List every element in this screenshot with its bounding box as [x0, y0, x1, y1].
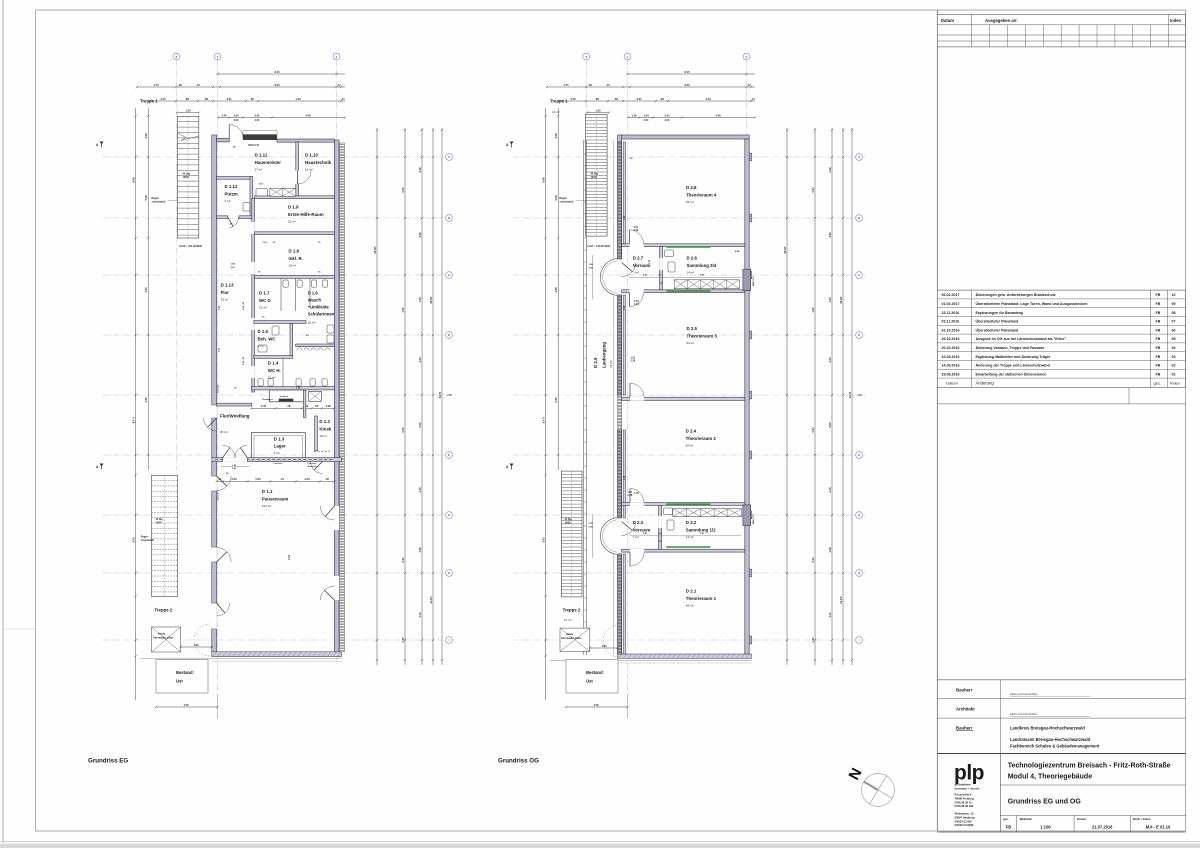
- OG Erker 1 bay window: [600, 259, 617, 296]
- svg-text:2.26: 2.26: [634, 229, 639, 232]
- svg-text:D 1.8: D 1.8: [289, 249, 300, 254]
- OG zone2 walls: [622, 503, 745, 506]
- svg-text:03: 03: [1172, 355, 1176, 359]
- far right vertical dim: [441, 128, 443, 665]
- EG WC D cell partitions: [280, 278, 282, 311]
- svg-text:D 2.9: D 2.9: [593, 357, 598, 368]
- svg-text:1.80: 1.80: [601, 644, 607, 648]
- svg-text:.11: .11: [747, 83, 751, 87]
- OG left wall inner lining: [623, 142, 625, 246]
- svg-text:FB: FB: [1156, 302, 1161, 306]
- svg-text:.88: .88: [185, 97, 189, 101]
- EG double door arcs Windfang: [223, 445, 235, 457]
- svg-text:Fahrradabst.plätze: Fahrradabst.plätze: [561, 637, 582, 640]
- svg-text:2.26: 2.26: [628, 494, 633, 497]
- entry dims: [218, 117, 345, 119]
- svg-text:2.26: 2.26: [828, 167, 832, 173]
- svg-text:Modul 4, Theoriegebäude: Modul 4, Theoriegebäude: [1008, 774, 1093, 781]
- svg-text:.90: .90: [250, 97, 254, 101]
- svg-text:.48: .48: [178, 83, 182, 87]
- svg-text:Pausenraum: Pausenraum: [262, 496, 288, 501]
- OG building exterior walls: [622, 135, 750, 139]
- svg-text:FB: FB: [1156, 293, 1161, 297]
- svg-text:0761/38 38 10: 0761/38 38 10: [955, 800, 973, 804]
- left vertical dimension chains: [545, 108, 547, 700]
- svg-text:7 m²: 7 m²: [633, 270, 639, 274]
- OG stair Treppe 2: [561, 471, 582, 597]
- svg-text:3.45: 3.45: [418, 357, 422, 363]
- svg-text:Überarbeiteter Planstand: Überarbeiteter Planstand: [976, 319, 1019, 324]
- svg-text:7 m²: 7 m²: [633, 535, 639, 539]
- svg-text:Änderung Vordach, Treppe und F: Änderung Vordach, Treppe und Fassade: [976, 346, 1045, 350]
- svg-text:.15: .15: [606, 83, 610, 87]
- svg-text:Beh. WC: Beh. WC: [258, 336, 277, 341]
- svg-text:Maßstab:: Maßstab:: [1020, 817, 1033, 821]
- svg-text:±0.00 = 191,48 NHN: ±0.00 = 191,48 NHN: [179, 245, 202, 248]
- EG right facade cladding hatch: [340, 143, 345, 652]
- EG WC H toilets: [258, 379, 263, 386]
- svg-text:07: 07: [1172, 320, 1176, 324]
- EG building exterior walls: [212, 135, 217, 657]
- svg-text:Treppe 1: Treppe 1: [140, 99, 158, 104]
- svg-text:D 1.4: D 1.4: [268, 361, 279, 366]
- svg-text:1.20: 1.20: [185, 108, 191, 112]
- svg-text:D 2.5: D 2.5: [687, 326, 698, 331]
- EG stair Treppe 2: [152, 475, 178, 596]
- svg-text:Laubengang: Laubengang: [602, 342, 607, 368]
- svg-text:FB: FB: [1006, 824, 1012, 829]
- svg-text:6.10: 6.10: [401, 557, 405, 563]
- svg-text:FB: FB: [1156, 320, 1161, 324]
- EG WC H walls: [251, 387, 334, 390]
- svg-text:Schiebe: Schiebe: [218, 384, 220, 393]
- svg-text:1.90: 1.90: [193, 643, 199, 647]
- svg-text:Landratsamt Breisgau-Hochschwa: Landratsamt Breisgau-Hochschwarzwald: [1010, 737, 1091, 742]
- svg-text:.58: .58: [614, 97, 618, 101]
- svg-text:26.10.2016: 26.10.2016: [942, 337, 960, 341]
- svg-text:FB: FB: [1156, 311, 1161, 315]
- svg-text:FB: FB: [1156, 346, 1161, 350]
- svg-text:Ausguck im OG aus der Lärmschu: Ausguck im OG aus der Lärmschutzwand als…: [976, 337, 1067, 341]
- svg-text:4 m²: 4 m²: [225, 199, 231, 203]
- svg-text:34.74: 34.74: [438, 391, 442, 398]
- svg-text:4.75: 4.75: [563, 83, 569, 87]
- north arrow: [862, 774, 895, 807]
- svg-text:4.43: 4.43: [705, 97, 711, 101]
- svg-text:+3,47 = 194,95 NHN: +3,47 = 194,95 NHN: [587, 245, 610, 248]
- issue table (Ausgegeben an): [937, 15, 1185, 47]
- stair width dim: [587, 112, 609, 114]
- EG entry door top: [229, 125, 243, 139]
- EG bike shelter xbox: [152, 627, 181, 652]
- EG room D1.12 walls: [250, 177, 253, 219]
- EG Kiosk walls: [303, 390, 306, 417]
- svg-text:124 m²: 124 m²: [262, 504, 271, 508]
- svg-text:3.41: 3.41: [664, 113, 670, 117]
- svg-text:03.11.2016: 03.11.2016: [942, 320, 960, 324]
- svg-text:Vordaches: Vordaches: [262, 399, 274, 401]
- svg-text:schutzwand: schutzwand: [560, 200, 574, 203]
- svg-text:Woltmanstr. 12: Woltmanstr. 12: [955, 812, 975, 816]
- svg-text:D 2.3: D 2.3: [633, 520, 644, 525]
- horizontal grid lines: [513, 156, 865, 158]
- EG stair Treppe 1: [177, 116, 199, 238]
- svg-text:Treppe 2: Treppe 2: [155, 608, 173, 613]
- svg-text:8.46: 8.46: [132, 177, 136, 183]
- svg-text:Technologiezentrum Breisach -: Technologiezentrum Breisach - Fritz-Roth…: [1008, 763, 1171, 770]
- title area: [937, 753, 1185, 755]
- EG D1.12 door: [230, 217, 239, 228]
- svg-text:4.75: 4.75: [153, 83, 159, 87]
- svg-text:Regen-: Regen-: [141, 537, 149, 539]
- OG right facade pilasters: [749, 153, 752, 161]
- EG Beh WC fixtures: [272, 326, 279, 335]
- OG left wall segments: [618, 142, 622, 259]
- OG right pilaster lower: [743, 505, 751, 526]
- horizontal grid lines: [103, 156, 455, 158]
- svg-text:.11: .11: [751, 97, 755, 101]
- OG Erker2 door arc: [622, 522, 636, 536]
- svg-text:Datum: Datum: [946, 380, 958, 385]
- svg-text:1.45: 1.45: [221, 113, 227, 117]
- svg-text:2.00: 2.00: [665, 119, 670, 122]
- OG ground line below: [550, 659, 752, 661]
- svg-text:4 m²: 4 m²: [274, 451, 280, 455]
- EG left wall door arcs Pausenraum: [204, 418, 217, 431]
- svg-text:1.45: 1.45: [418, 297, 422, 303]
- grid letter circles right: [856, 154, 863, 161]
- svg-text:Index: Index: [1170, 380, 1180, 385]
- svg-text:Datum und Unterschriften: Datum und Unterschriften: [1010, 693, 1038, 696]
- svg-text:Datum: Datum: [941, 18, 954, 23]
- svg-text:Füllstein: Füllstein: [274, 462, 284, 465]
- svg-text:FB: FB: [1156, 355, 1161, 359]
- svg-text:D 1.10: D 1.10: [305, 153, 318, 158]
- svg-text:Erste-Hilfe-Raum: Erste-Hilfe-Raum: [288, 212, 324, 217]
- bottom paper strip: [0, 844, 1200, 849]
- svg-text:+ F6: + F6: [446, 393, 452, 397]
- svg-text:4.10: 4.10: [401, 637, 405, 643]
- EG wall top of Pausenraum: [212, 458, 342, 462]
- title block bottom row: [1016, 815, 1018, 832]
- svg-text:2.45: 2.45: [418, 487, 422, 493]
- svg-text:D 1.3: D 1.3: [274, 436, 285, 441]
- right vertical dimension chains: [376, 128, 378, 665]
- svg-text:D 1.1: D 1.1: [262, 489, 273, 494]
- svg-text:16/30: 16/30: [183, 176, 190, 179]
- svg-text:14.43²: 14.43²: [839, 596, 843, 603]
- EG windfang dim chain: [251, 407, 334, 409]
- svg-text:23 m²: 23 m²: [259, 305, 267, 309]
- Bestand existing building box: [156, 660, 208, 694]
- EG sink fixture top: [256, 189, 268, 196]
- svg-text:Hausmeister: Hausmeister: [255, 160, 282, 165]
- EG top wall: [217, 138, 230, 142]
- svg-text:Haustechnik: Haustechnik: [305, 160, 332, 165]
- svg-text:64 m²: 64 m²: [687, 341, 695, 345]
- svg-text:Grundriss EG und OG: Grundriss EG und OG: [1008, 799, 1082, 806]
- svg-text:01: 01: [1172, 372, 1176, 376]
- svg-text:Putzm.: Putzm.: [225, 191, 239, 196]
- svg-text:3.40: 3.40: [261, 404, 267, 408]
- svg-text:1.45: 1.45: [828, 297, 832, 303]
- svg-text:64 m²: 64 m²: [686, 200, 694, 204]
- svg-text:14.09.2016: 14.09.2016: [942, 364, 960, 368]
- svg-text:D 2.8: D 2.8: [686, 185, 697, 190]
- svg-text:0761/38 38 198: 0761/38 38 198: [955, 804, 974, 808]
- svg-text:BRH 0.70: BRH 0.70: [249, 144, 260, 147]
- title block panel left edge: [936, 10, 938, 831]
- svg-text:3.43: 3.43: [231, 477, 237, 481]
- EG ground line below: [140, 658, 342, 660]
- svg-text:Treppe 1: Treppe 1: [550, 99, 568, 104]
- EG ausguss box: [309, 391, 322, 401]
- EG duct xbox: [270, 188, 296, 196]
- svg-text:schutzwand: schutzwand: [141, 539, 155, 542]
- OG green bars lower zone: [666, 503, 710, 505]
- svg-text:D 1.6: D 1.6: [308, 291, 319, 296]
- svg-text:64 m²: 64 m²: [686, 443, 694, 447]
- svg-text:WC H.: WC H.: [268, 368, 281, 373]
- svg-text:Landkreis Breisgau-Hochschwarz: Landkreis Breisgau-Hochschwarzwald: [1010, 726, 1085, 731]
- svg-text:06: 06: [1172, 328, 1176, 332]
- svg-text:05: 05: [1172, 337, 1176, 341]
- svg-text:3.45: 3.45: [828, 357, 832, 363]
- svg-text:3.15: 3.15: [570, 97, 576, 101]
- EG Lager box: [251, 433, 305, 462]
- svg-text:1.20: 1.20: [595, 108, 601, 112]
- svg-text:1.98: 1.98: [325, 404, 331, 408]
- svg-text:4.46: 4.46: [305, 113, 311, 117]
- svg-text:14 m²: 14 m²: [686, 535, 694, 539]
- svg-text:gez.: gez.: [1154, 380, 1162, 385]
- bestand dim 4.56: [156, 706, 218, 708]
- svg-text:Anbau: Anbau: [158, 633, 166, 636]
- OG small fixtures vorraum upper: [665, 250, 674, 257]
- svg-text:Schülerinnen: Schülerinnen: [308, 312, 335, 317]
- svg-text:04: 04: [1172, 346, 1176, 350]
- svg-text:3.31: 3.31: [226, 97, 232, 101]
- svg-text:Ausgüsse: Ausgüsse: [308, 465, 319, 468]
- svg-text:33.48¹: 33.48¹: [429, 296, 433, 303]
- svg-text:+ F6: + F6: [856, 393, 862, 397]
- svg-text:Index: Index: [1170, 18, 1182, 23]
- svg-text:6.10: 6.10: [811, 557, 815, 563]
- svg-text:D 1.12: D 1.12: [225, 184, 238, 189]
- svg-text:Schiebe: Schiebe: [218, 491, 220, 500]
- svg-text:11 m²: 11 m²: [552, 110, 559, 114]
- EG wall bottom of D1.9: [255, 232, 335, 235]
- entry dims: [628, 117, 755, 119]
- svg-text:02: 02: [1172, 364, 1176, 368]
- svg-text:3.55: 3.55: [144, 287, 148, 293]
- svg-text:Theorieraum 4: Theorieraum 4: [686, 192, 717, 197]
- svg-text:.58: .58: [204, 97, 208, 101]
- left vertical dimension chains: [135, 108, 137, 700]
- svg-text:16.09.2016: 16.09.2016: [942, 355, 960, 359]
- svg-text:Ust: Ust: [586, 679, 593, 684]
- svg-text:Bl.Nr. / Index:: Bl.Nr. / Index:: [1133, 817, 1152, 821]
- OG door Vorraum to T3: [630, 289, 644, 293]
- EG vestibule box: [269, 390, 304, 402]
- svg-text:10 m²: 10 m²: [319, 434, 327, 438]
- svg-text:8.15: 8.15: [684, 70, 690, 74]
- svg-text:11 m²: 11 m²: [564, 618, 571, 622]
- OG small fixtures vorraum lower: [664, 508, 673, 515]
- svg-text:040/23 53 8298: 040/23 53 8298: [955, 823, 974, 827]
- OG doors lower zone: [630, 489, 644, 503]
- stair width dim: [177, 112, 199, 114]
- svg-text:FB: FB: [1156, 328, 1161, 332]
- svg-text:E: E: [448, 453, 450, 457]
- OG right pilaster upper: [743, 269, 751, 290]
- OG stair Treppe 1: [585, 114, 607, 236]
- svg-text:3.08: 3.08: [554, 133, 558, 139]
- svg-text:3.41: 3.41: [254, 113, 260, 117]
- svg-text:4.10: 4.10: [811, 637, 815, 643]
- EG wall above D1.9: [255, 196, 335, 199]
- svg-text:plp: plp: [954, 762, 984, 785]
- top dimension chains: [628, 73, 756, 75]
- svg-text:11 m²: 11 m²: [268, 375, 275, 379]
- top dimension chains: [218, 73, 346, 75]
- OG laubengang inner edge line: [613, 140, 615, 259]
- svg-text:29.08.2016: 29.08.2016: [942, 372, 960, 376]
- svg-text:D 1.5: D 1.5: [258, 329, 269, 334]
- svg-text:4.50: 4.50: [811, 307, 815, 313]
- svg-text:D 1.9: D 1.9: [288, 205, 299, 210]
- EG entry canopy outline: [243, 131, 277, 135]
- svg-text:1.45: 1.45: [634, 492, 639, 495]
- svg-text:5.08: 5.08: [144, 195, 148, 201]
- svg-text:Lager: Lager: [274, 444, 286, 449]
- svg-text:4.56: 4.56: [593, 703, 599, 707]
- svg-text:3.08: 3.08: [144, 133, 148, 139]
- svg-text:10 m²: 10 m²: [289, 263, 297, 267]
- OG door T4: [630, 230, 644, 244]
- svg-text:Inkl. R.: Inkl. R.: [289, 256, 303, 261]
- svg-text:Kiosk: Kiosk: [319, 426, 332, 431]
- svg-text:Einarbeitung der statischen Di: Einarbeitung der statischen Dimensionen: [976, 372, 1047, 376]
- svg-text:5.05: 5.05: [828, 422, 832, 428]
- svg-text:33 m²: 33 m²: [221, 297, 229, 301]
- svg-text:31.10.2016: 31.10.2016: [942, 328, 960, 332]
- svg-text:M.4 - E 01.10: M.4 - E 01.10: [1146, 824, 1171, 829]
- EG serving counter: [314, 450, 330, 452]
- svg-text:1.04: 1.04: [233, 113, 239, 117]
- svg-text:3.31: 3.31: [636, 97, 642, 101]
- svg-text:H: H: [448, 571, 450, 575]
- EG kiosk door arc: [311, 462, 323, 474]
- svg-text:10 m²: 10 m²: [305, 167, 313, 171]
- svg-text:Fachbereich Schulen & Gebäudem: Fachbereich Schulen & Gebäudemanagement: [1010, 744, 1100, 749]
- svg-text:D 2.2: D 2.2: [686, 520, 697, 525]
- svg-text:3.43: 3.43: [304, 477, 310, 481]
- svg-text:1.43: 1.43: [418, 612, 422, 618]
- svg-text:3.15: 3.15: [160, 97, 166, 101]
- svg-text:FB: FB: [1156, 337, 1161, 341]
- svg-text:4.04¹: 4.04¹: [634, 302, 640, 306]
- svg-text:Vorraum: Vorraum: [633, 527, 651, 532]
- bestand dim 4.56: [566, 706, 628, 708]
- svg-text:10 m²: 10 m²: [308, 321, 316, 325]
- svg-text:FB: FB: [1156, 372, 1161, 376]
- svg-text:5.08: 5.08: [554, 195, 558, 201]
- OG shelter xbox: [560, 628, 590, 651]
- svg-text:4.46: 4.46: [715, 113, 721, 117]
- svg-text:35 m²: 35 m²: [220, 430, 228, 434]
- svg-text:3.34¹: 3.34¹: [287, 554, 291, 560]
- svg-text:8.4 ½: 8.4 ½: [542, 416, 546, 423]
- svg-text:35.48¹: 35.48¹: [783, 246, 787, 253]
- svg-text:5.43: 5.43: [542, 537, 546, 543]
- svg-text:D 1.11: D 1.11: [255, 153, 268, 158]
- svg-text:6.30: 6.30: [401, 187, 405, 193]
- svg-text:16/30: 16/30: [591, 176, 598, 179]
- Bestand existing building box: [566, 660, 618, 694]
- svg-text:2.55: 2.55: [554, 397, 558, 403]
- svg-text:21.07.2016: 21.07.2016: [1092, 824, 1113, 829]
- svg-text:23.11.2016: 23.11.2016: [942, 311, 960, 315]
- svg-text:Architekt: Architekt: [956, 707, 975, 712]
- svg-text:D 2.7: D 2.7: [633, 256, 644, 261]
- OG cabinet xband lower: [673, 509, 742, 517]
- svg-text:D 1.2: D 1.2: [319, 419, 330, 424]
- svg-text:8.33: 8.33: [684, 83, 690, 87]
- svg-text:.11: .11: [341, 97, 345, 101]
- svg-text:6.30: 6.30: [811, 187, 815, 193]
- EG WC toilets row: [283, 280, 288, 287]
- signature block: [937, 679, 1185, 681]
- svg-text:14.43²: 14.43²: [429, 596, 433, 603]
- svg-text:Ausgegeben an:: Ausgegeben an:: [985, 18, 1018, 23]
- fold mark left: [3, 628, 36, 630]
- svg-text:Flur/Windfang: Flur/Windfang: [220, 414, 250, 419]
- grid axis vertical lines: [585, 60, 587, 470]
- svg-text:Theorieraum 3: Theorieraum 3: [687, 333, 718, 338]
- OG doors upper zone2: [630, 383, 644, 397]
- svg-text:06.02.2017: 06.02.2017: [942, 293, 960, 297]
- svg-text:Bestand:: Bestand:: [586, 670, 604, 675]
- svg-text:17 m²: 17 m²: [255, 167, 263, 171]
- svg-text:Änderungen gem. Anforderungen: Änderungen gem. Anforderungen Brandschut…: [976, 293, 1056, 297]
- svg-text:2.00: 2.00: [234, 119, 239, 122]
- svg-text:10: 10: [1172, 293, 1176, 297]
- OG bottom wall hatched: [618, 654, 752, 658]
- EG bottom wall hatched: [212, 652, 342, 657]
- svg-text:BRH 0.70: BRH 0.70: [753, 514, 755, 524]
- OG dashed door arc at shelter: [603, 625, 619, 657]
- svg-text:1.04: 1.04: [643, 113, 649, 117]
- EG Windfang walls: [217, 403, 252, 406]
- OG Erker1 door arc: [622, 263, 636, 277]
- svg-text:E: E: [858, 453, 860, 457]
- svg-text:Flur: Flur: [221, 290, 230, 295]
- svg-text:Bauherr: Bauherr: [956, 725, 973, 730]
- svg-text:Grundriss OG: Grundriss OG: [498, 757, 539, 764]
- svg-text:Vorraum: Vorraum: [633, 263, 651, 268]
- svg-text:Änderung: Änderung: [976, 380, 995, 385]
- EG D1.5 Beh WC walls: [290, 323, 293, 357]
- EG right wall door arcs: [320, 506, 334, 520]
- svg-text:.15: .15: [280, 477, 284, 481]
- svg-text:2.00: 2.00: [644, 119, 649, 122]
- svg-text:Sammlung 1/2: Sammlung 1/2: [686, 527, 716, 532]
- svg-text:33.48¹: 33.48¹: [839, 296, 843, 303]
- svg-text:3.55: 3.55: [554, 287, 558, 293]
- svg-text:Fahrradabst.plätze: Fahrradabst.plätze: [153, 637, 174, 640]
- OG wall bottom of Theorieraum4: [622, 244, 745, 247]
